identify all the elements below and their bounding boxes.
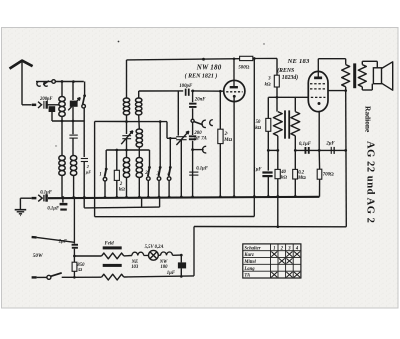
svg-text:kΩ: kΩ bbox=[255, 126, 261, 131]
svg-text:kΩ: kΩ bbox=[119, 188, 125, 193]
svg-text:3: 3 bbox=[156, 172, 160, 177]
svg-text:NW: NW bbox=[159, 260, 168, 265]
svg-text:MΩ: MΩ bbox=[223, 138, 232, 143]
svg-text:0,2: 0,2 bbox=[298, 170, 305, 175]
svg-text:Feld: Feld bbox=[105, 241, 115, 246]
svg-text:2µF: 2µF bbox=[325, 142, 335, 147]
svg-text:Lang: Lang bbox=[243, 267, 255, 272]
svg-text:4: 4 bbox=[166, 172, 170, 177]
svg-text:NE 183: NE 183 bbox=[287, 58, 310, 65]
svg-text:0,1µF: 0,1µF bbox=[47, 207, 60, 212]
svg-text:1: 1 bbox=[273, 246, 275, 251]
svg-text:µF 7A: µF 7A bbox=[193, 137, 207, 142]
svg-text:kΩ: kΩ bbox=[265, 83, 271, 88]
svg-text:(RENS: (RENS bbox=[277, 67, 294, 74]
svg-text:200: 200 bbox=[193, 131, 202, 136]
svg-text:103: 103 bbox=[131, 265, 139, 270]
svg-text:Radione: Radione bbox=[364, 106, 373, 133]
svg-text:TA: TA bbox=[244, 274, 250, 279]
svg-text:180: 180 bbox=[160, 265, 168, 270]
svg-text:Ω: Ω bbox=[78, 268, 82, 273]
svg-text:700Ω: 700Ω bbox=[323, 171, 334, 177]
svg-text:20nF: 20nF bbox=[194, 97, 206, 102]
svg-text:Mittel: Mittel bbox=[243, 260, 256, 265]
svg-text:100pF: 100pF bbox=[179, 84, 193, 89]
svg-text:( REN 1821 ): ( REN 1821 ) bbox=[185, 73, 218, 80]
svg-text:NW 180: NW 180 bbox=[196, 64, 222, 72]
svg-text:1823d): 1823d) bbox=[282, 74, 298, 81]
svg-text:2µF: 2µF bbox=[58, 240, 68, 245]
svg-text:AG 22 und AG 2: AG 22 und AG 2 bbox=[364, 141, 375, 223]
svg-text:µF: µF bbox=[85, 170, 91, 175]
svg-text:0,1µF: 0,1µF bbox=[40, 190, 53, 195]
svg-text:5,5V 0,2A: 5,5V 0,2A bbox=[145, 245, 164, 250]
svg-text:MΩ: MΩ bbox=[297, 176, 306, 181]
svg-text:0,1µF: 0,1µF bbox=[196, 166, 209, 171]
svg-text:kΩ: kΩ bbox=[281, 175, 287, 180]
svg-text:200pF: 200pF bbox=[39, 97, 53, 102]
svg-text:2: 2 bbox=[86, 164, 89, 169]
svg-text:50: 50 bbox=[256, 120, 261, 125]
svg-text:500Ω: 500Ω bbox=[238, 65, 249, 71]
svg-text:2: 2 bbox=[144, 171, 148, 176]
svg-text:1µF: 1µF bbox=[253, 168, 262, 173]
svg-text:50W: 50W bbox=[33, 253, 43, 259]
svg-text:Schalter: Schalter bbox=[244, 246, 260, 251]
svg-text:2·: 2· bbox=[224, 132, 229, 137]
svg-text:0,1µF: 0,1µF bbox=[299, 142, 312, 147]
svg-text:Kurz: Kurz bbox=[243, 253, 254, 258]
svg-text:NE: NE bbox=[131, 260, 139, 265]
svg-text:1: 1 bbox=[99, 172, 101, 177]
svg-text:1µF: 1µF bbox=[167, 271, 176, 276]
